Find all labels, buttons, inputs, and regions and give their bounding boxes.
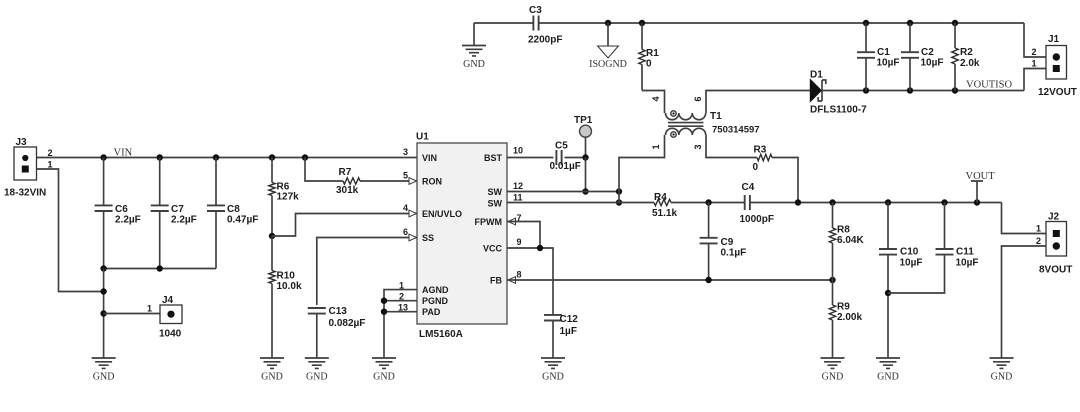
test point TP1 <box>574 115 593 158</box>
wire (FPWM to VCC node) <box>507 222 540 249</box>
svg-text:10µF: 10µF <box>921 58 944 69</box>
J2 pin 1 wire <box>1002 203 1047 234</box>
node (C1 top) <box>863 20 869 26</box>
svg-text:GND: GND <box>991 372 1013 383</box>
node (PGND join) <box>381 298 387 304</box>
node (C11 top) <box>941 199 947 205</box>
svg-text:C2: C2 <box>921 47 934 58</box>
svg-text:2: 2 <box>1036 236 1041 246</box>
svg-text:J3: J3 <box>16 137 28 148</box>
resistor R8 <box>829 203 864 281</box>
capacitor C11 <box>888 203 979 294</box>
svg-text:AGND: AGND <box>422 285 449 295</box>
svg-text:T1: T1 <box>710 111 722 122</box>
connector J3 (18-32VIN) <box>4 137 53 199</box>
resistor R7 (RON) <box>305 158 410 197</box>
svg-text:2200pF: 2200pF <box>528 35 562 46</box>
wire (T1 pin 3 to R3) <box>706 135 757 158</box>
capacitor C3 <box>528 5 562 46</box>
resistor R4 <box>652 192 677 219</box>
svg-text:FB: FB <box>490 276 502 286</box>
node (C2 bottom) <box>907 87 913 93</box>
svg-text:3: 3 <box>403 147 408 157</box>
svg-text:9: 9 <box>517 237 522 247</box>
resistor R9 <box>829 280 862 358</box>
wire (input capacitor ground rail) <box>104 268 216 270</box>
svg-text:VOUTISO: VOUTISO <box>966 80 1012 91</box>
ground (U1 AGND/PGND/PAD) <box>372 358 396 368</box>
node (FPWM/VCC join) <box>537 245 543 251</box>
svg-text:0: 0 <box>646 59 652 70</box>
wire (R4 to C4) <box>671 202 745 204</box>
svg-text:RON: RON <box>422 177 442 187</box>
node (C9 top) <box>705 199 711 205</box>
node (R8 top) <box>829 199 835 205</box>
svg-text:8: 8 <box>517 270 522 280</box>
diode D1 DFLS1100-7 <box>810 70 867 116</box>
resistor R3 <box>753 145 773 174</box>
svg-text:2.0k: 2.0k <box>960 58 980 69</box>
node (C10 top) <box>885 199 891 205</box>
capacitor C1 <box>857 23 900 91</box>
svg-text:TP1: TP1 <box>574 115 593 126</box>
capacitor C9 <box>700 203 747 281</box>
svg-text:51.1k: 51.1k <box>652 208 677 219</box>
node (VOUT tap) <box>974 199 980 205</box>
node (J4 branch) <box>100 310 106 316</box>
svg-text:EN/UVLO: EN/UVLO <box>422 209 462 219</box>
svg-text:C5: C5 <box>555 141 568 152</box>
wire (R3 to snubber node) <box>772 158 798 203</box>
svg-text:C6: C6 <box>115 204 128 215</box>
svg-text:C9: C9 <box>721 237 734 248</box>
svg-text:8VOUT: 8VOUT <box>1039 265 1072 276</box>
svg-text:10µF: 10µF <box>956 258 979 269</box>
svg-text:3: 3 <box>693 144 703 149</box>
wire (ground rail down to GND) <box>103 269 105 359</box>
node (PAD join) <box>381 309 387 315</box>
svg-text:2.2µF: 2.2µF <box>171 215 197 226</box>
svg-text:GND: GND <box>306 372 328 383</box>
svg-text:ISOGND: ISOGND <box>589 59 627 70</box>
wire (FB line) <box>507 279 833 281</box>
ground (C10) <box>876 358 900 368</box>
svg-text:SS: SS <box>422 233 434 243</box>
svg-text:1000pF: 1000pF <box>740 214 774 225</box>
svg-text:0.01µF: 0.01µF <box>550 161 581 172</box>
resistor R1 <box>639 23 659 91</box>
wire (EN/UVLO to divider) <box>272 214 410 237</box>
svg-text:R10: R10 <box>277 271 296 282</box>
capacitor C8 <box>207 158 258 269</box>
svg-text:1: 1 <box>1036 224 1041 234</box>
wire (AGND/PGND/PAD bus) <box>384 290 417 358</box>
svg-text:R3: R3 <box>754 145 767 156</box>
wire (T1 pin 1 to SW rail) <box>619 135 665 203</box>
node (ground rail / C6) <box>100 265 106 271</box>
svg-text:DFLS1100-7: DFLS1100-7 <box>810 105 867 116</box>
node (R2 bottom) <box>952 87 958 93</box>
svg-text:J4: J4 <box>162 295 174 306</box>
capacitor C4 <box>740 182 774 225</box>
svg-text:C3: C3 <box>529 5 542 16</box>
node (R8/R9 divider / FB) <box>829 277 835 283</box>
svg-text:10: 10 <box>513 146 523 156</box>
svg-text:6: 6 <box>403 227 408 237</box>
wire (top isolated rail, C3 to J1 side) <box>539 22 1024 24</box>
svg-text:12: 12 <box>513 181 523 191</box>
ground (C12) <box>541 358 565 368</box>
resistor R2 <box>952 23 980 91</box>
svg-text:0.1µF: 0.1µF <box>721 248 747 259</box>
capacitor C6 <box>95 158 141 269</box>
svg-text:10.0k: 10.0k <box>277 281 302 292</box>
svg-text:0.47µF: 0.47µF <box>227 215 258 226</box>
svg-text:127k: 127k <box>277 192 300 203</box>
node (R1 tap) <box>639 20 645 26</box>
node (BST/TP1) <box>582 154 588 160</box>
node (R7 branch) <box>302 154 308 160</box>
svg-text:0.082µF: 0.082µF <box>329 318 366 329</box>
svg-text:2.00k: 2.00k <box>837 312 862 323</box>
wire (C5 to BST node) <box>565 157 586 159</box>
svg-text:C4: C4 <box>742 182 755 193</box>
svg-text:C11: C11 <box>956 247 974 258</box>
node (C6 top) <box>100 154 106 160</box>
capacitor C10 <box>879 203 923 359</box>
svg-text:2: 2 <box>1031 47 1036 57</box>
capacitor C12 <box>544 314 578 358</box>
svg-text:D1: D1 <box>810 70 823 81</box>
wire (C4 to output node / VOUT rail) <box>750 202 1002 204</box>
svg-text:R4: R4 <box>654 192 667 203</box>
svg-text:4: 4 <box>651 96 661 101</box>
svg-text:PAD: PAD <box>422 307 441 317</box>
svg-text:R1: R1 <box>646 48 659 59</box>
node (C2 top) <box>907 20 913 26</box>
ground (input rail) <box>92 358 116 368</box>
svg-text:10µF: 10µF <box>877 58 900 69</box>
ground (top left, C3 return) <box>462 23 486 70</box>
net VOUT <box>966 171 996 203</box>
wire (D1 cathode to output rail VOUTISO) <box>822 90 1024 92</box>
capacitor C7 <box>151 158 197 269</box>
svg-text:BST: BST <box>484 153 503 163</box>
node (T1 secondary to SW11 rail) <box>616 199 622 205</box>
capacitor C5 <box>550 141 581 173</box>
svg-text:GND: GND <box>877 372 899 383</box>
svg-text:U1: U1 <box>416 132 429 143</box>
svg-text:C10: C10 <box>900 247 919 258</box>
ground (R9) <box>821 358 845 368</box>
svg-text:GND: GND <box>93 372 115 383</box>
J1 pin 2 wire <box>1024 23 1046 57</box>
wire (VCC to C12) <box>507 248 553 315</box>
svg-text:GND: GND <box>542 372 564 383</box>
svg-text:LM5160A: LM5160A <box>419 329 463 340</box>
transformer T1 <box>651 96 760 149</box>
svg-text:1: 1 <box>1031 59 1036 69</box>
node (ISOGND tap) <box>605 20 611 26</box>
svg-text:SW: SW <box>488 187 503 197</box>
svg-text:PGND: PGND <box>422 296 449 306</box>
node (R2 top) <box>952 20 958 26</box>
J2 pin 2 wire <box>1002 236 1047 358</box>
svg-text:4: 4 <box>403 203 408 213</box>
svg-text:750314597: 750314597 <box>712 125 760 136</box>
svg-text:12VOUT: 12VOUT <box>1038 87 1077 98</box>
node (C7 top) <box>157 154 163 160</box>
resistor R10 <box>269 236 302 358</box>
wire (SW pin 12 line) <box>507 191 619 193</box>
node (C8 top) <box>213 154 219 160</box>
capacitor C13 <box>308 306 366 358</box>
ISOGND power symbol <box>589 23 627 70</box>
node (T1 secondary to SW12) <box>616 188 622 194</box>
wire (R1 to T1 pin 4) <box>642 91 665 114</box>
svg-text:J2: J2 <box>1048 212 1060 223</box>
svg-text:FPWM: FPWM <box>475 217 503 227</box>
svg-text:1: 1 <box>651 144 661 149</box>
svg-text:C1: C1 <box>877 47 890 58</box>
wire (top rail, GND to C3) <box>474 22 533 24</box>
node (R6 top) <box>269 154 275 160</box>
svg-text:R2: R2 <box>960 47 973 58</box>
svg-text:VCC: VCC <box>483 244 503 254</box>
svg-text:VIN: VIN <box>422 153 437 163</box>
svg-text:1040: 1040 <box>159 329 182 340</box>
svg-text:6.04K: 6.04K <box>837 235 864 246</box>
J3 pin 1 wire to ground rail <box>37 169 104 292</box>
wire (SW pin 11 / main switch rail) <box>507 202 654 204</box>
ground (C13) <box>305 358 329 368</box>
svg-text:SW: SW <box>488 198 503 208</box>
ground (R10) <box>260 358 284 368</box>
wire (TP1 node down to SW) <box>585 158 587 192</box>
node (J3 pin1 join) <box>100 288 106 294</box>
wire (VIN rail, J3 pin 2 to U1 pin 3) <box>37 157 418 159</box>
node (R6/R10/EN divider) <box>269 233 275 239</box>
svg-text:GND: GND <box>822 372 844 383</box>
svg-text:GND: GND <box>463 59 485 70</box>
op-amp U1 LM5160A (regulator IC) <box>409 132 516 341</box>
ground (J2 return) <box>990 358 1014 368</box>
capacitor C2 <box>901 23 944 91</box>
svg-text:C13: C13 <box>329 306 348 317</box>
connector J4 (1040) <box>104 295 182 340</box>
svg-text:5: 5 <box>403 171 408 181</box>
connector J2 (8VOUT) <box>1039 212 1072 276</box>
svg-text:R8: R8 <box>837 225 850 236</box>
svg-text:11: 11 <box>513 193 523 203</box>
connector J1 (12VOUT) <box>1038 34 1077 98</box>
node (C10/C11 ground join) <box>885 290 891 296</box>
svg-text:18-32VIN: 18-32VIN <box>4 188 46 199</box>
svg-text:10µF: 10µF <box>900 258 923 269</box>
svg-text:C7: C7 <box>171 204 184 215</box>
svg-text:0: 0 <box>753 162 759 173</box>
svg-text:J1: J1 <box>1048 34 1060 45</box>
svg-text:2: 2 <box>47 148 52 158</box>
svg-text:R9: R9 <box>837 302 850 313</box>
svg-text:GND: GND <box>261 372 283 383</box>
node (C9 bottom / FB) <box>705 277 711 283</box>
wire (T1 pin 6 to D1 anode) <box>706 91 810 114</box>
svg-text:GND: GND <box>373 372 395 383</box>
resistor R6 <box>269 158 299 237</box>
svg-text:R7: R7 <box>339 167 352 178</box>
svg-text:1: 1 <box>147 304 152 314</box>
J1 pin 1 wire <box>1024 59 1046 91</box>
node (C1 bottom) <box>863 87 869 93</box>
svg-text:301k: 301k <box>336 185 359 196</box>
svg-text:6: 6 <box>693 96 703 101</box>
wire (SS to C13) <box>317 238 410 306</box>
svg-text:C8: C8 <box>227 204 240 215</box>
svg-text:1µF: 1µF <box>560 326 577 337</box>
node (ground rail / C7) <box>157 265 163 271</box>
node (BST cap to SW pin 12) <box>582 188 588 194</box>
svg-text:2.2µF: 2.2µF <box>115 215 141 226</box>
node (R3 bottom) <box>795 199 801 205</box>
svg-text:C12: C12 <box>560 314 579 325</box>
svg-text:1: 1 <box>47 160 52 170</box>
wire (BST to C5) <box>507 157 553 159</box>
